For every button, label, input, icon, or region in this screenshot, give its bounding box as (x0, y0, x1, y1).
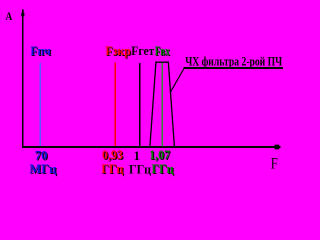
svg-text:Fзкр: Fзкр (105, 43, 130, 58)
Fпч line (70 MHz) (39, 63, 41, 146)
x-axis (22, 145, 281, 150)
svg-text:ЧХ фильтра 2-рой ПЧ: ЧХ фильтра 2-рой ПЧ (185, 53, 282, 68)
callout underline (184, 67, 284, 69)
svg-text:F: F (271, 156, 278, 173)
svg-text:ГГц: ГГц (101, 161, 123, 176)
svg-text:МГц: МГц (29, 161, 56, 176)
Fгет line (1 GHz) (139, 63, 141, 146)
svg-text:Fпч: Fпч (30, 43, 51, 58)
svg-text:Fвх: Fвх (155, 43, 170, 58)
Fзкр line (0.93 GHz) (114, 63, 116, 147)
svg-text:Fгет: Fгет (131, 43, 155, 58)
y-axis (21, 9, 24, 147)
svg-text:ГГц: ГГц (152, 161, 174, 176)
svg-text:А: А (5, 9, 12, 23)
Fвх line (1.07 GHz) (161, 63, 163, 146)
svg-text:ГГц: ГГц (129, 162, 151, 177)
callout leader line (170, 69, 184, 93)
filter response curve (2nd IF), trapezoid outline (150, 62, 175, 146)
